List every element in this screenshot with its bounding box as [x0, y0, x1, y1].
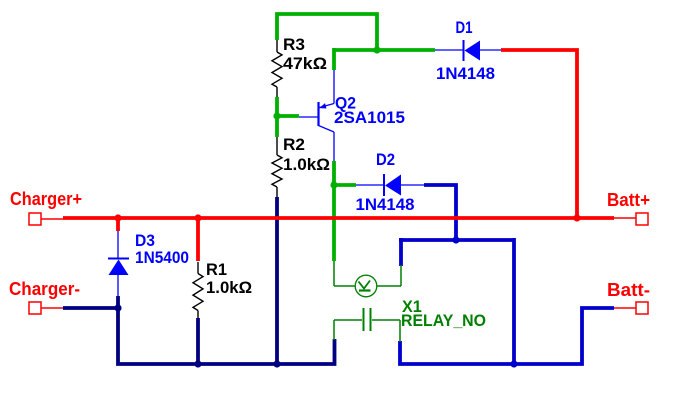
wire red bus [63, 216, 614, 220]
resistor R1 [193, 262, 203, 318]
svg-text:D3: D3 [135, 232, 155, 250]
svg-text:1.0kΩ: 1.0kΩ [206, 279, 252, 297]
svg-text:R3: R3 [283, 36, 305, 54]
junction blue bottom [510, 360, 517, 367]
junction red R1 [194, 214, 201, 221]
wire red R1 stub [196, 218, 200, 261]
wire blue bottom bus to Batt- [400, 308, 614, 364]
port Batt- [614, 302, 648, 314]
svg-text:1N4148: 1N4148 [436, 65, 495, 83]
junction blue mid [452, 236, 459, 243]
wire navy R1 down [196, 318, 200, 364]
junction navy D3 [114, 304, 121, 311]
junction navy R2 [273, 360, 280, 367]
wire green base stub [275, 114, 299, 118]
resistor R3 [272, 40, 282, 97]
svg-text:D2: D2 [376, 151, 395, 169]
wire green R3-R2 mid [275, 97, 279, 137]
wire blue D2 out [424, 185, 456, 240]
svg-text:RELAY_NO: RELAY_NO [401, 312, 486, 330]
svg-text:Batt+: Batt+ [607, 190, 650, 210]
wire blue right side down [512, 238, 516, 364]
transistor Q2 [299, 70, 334, 161]
svg-text:D1: D1 [456, 19, 473, 37]
svg-text:R1: R1 [206, 261, 227, 279]
wire green D2 stub [334, 183, 356, 187]
wire blue coil right drop [399, 238, 403, 266]
svg-text:Charger+: Charger+ [10, 189, 82, 209]
relay X1 contact [334, 308, 400, 342]
wire green D1 row [334, 48, 435, 52]
svg-text:Charger-: Charger- [9, 279, 80, 299]
wire blue mid horizontal [399, 238, 514, 242]
svg-text:1.0kΩ: 1.0kΩ [283, 156, 330, 174]
wire green emitter drop [332, 48, 336, 70]
relay X1 coil [334, 261, 401, 297]
port Charger- [29, 302, 63, 314]
junction green top [373, 46, 380, 53]
diode D1 [435, 40, 501, 61]
port Batt+ [614, 213, 648, 225]
svg-text:1N5400: 1N5400 [135, 249, 189, 267]
wire navy Charger- run [63, 308, 335, 364]
wire green top R3 loop [277, 14, 377, 50]
junction red D3 [114, 214, 121, 221]
diode D3 [108, 231, 129, 297]
wire navy R2 down [275, 197, 279, 364]
wire navy D3 stub [116, 296, 120, 310]
svg-text:Batt-: Batt- [607, 280, 650, 300]
junction green D2 [330, 181, 337, 188]
diode D2 [356, 174, 424, 196]
junction red right [573, 214, 580, 221]
port Charger+ [29, 213, 63, 225]
relay K glyph [359, 281, 371, 291]
svg-text:2SA1015: 2SA1015 [334, 109, 405, 127]
wire red D1 to Batt+ [501, 50, 577, 218]
junction navy R1 [194, 360, 201, 367]
wire red D3 stub [116, 218, 120, 231]
wire green collector down [332, 161, 336, 261]
svg-text:47kΩ: 47kΩ [283, 55, 327, 73]
svg-text:R2: R2 [283, 136, 305, 154]
emitter arrow Q2 [319, 103, 326, 108]
svg-text:1N4148: 1N4148 [356, 196, 415, 214]
resistor R2 [272, 137, 282, 197]
junction green base [273, 112, 280, 119]
